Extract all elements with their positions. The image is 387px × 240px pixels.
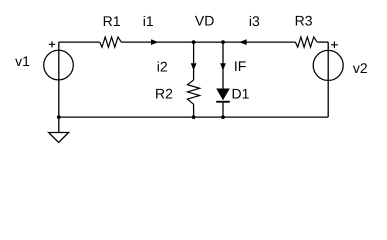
svg-text:v1: v1 xyxy=(15,53,30,69)
D1 branch wire lower xyxy=(222,103,224,117)
svg-text:IF: IF xyxy=(234,58,246,74)
svg-text:R3: R3 xyxy=(295,13,313,29)
v1 plus sign xyxy=(49,41,55,47)
svg-text:v2: v2 xyxy=(353,60,368,76)
wire top-left from v1 corner to R1 xyxy=(59,41,100,43)
wire v2 vertical (through source) xyxy=(327,42,329,117)
wire VD to D1 branch xyxy=(194,41,223,43)
v2 plus sign xyxy=(331,42,338,49)
current arrow i2 xyxy=(191,63,197,70)
wire R1 to node VD xyxy=(121,41,193,43)
diode D1 xyxy=(216,89,230,101)
wire bottom xyxy=(59,116,328,118)
wire R3 to v2 corner xyxy=(317,41,328,43)
R2 branch wire lower xyxy=(193,104,195,117)
voltage source v1 xyxy=(44,50,74,80)
svg-text:i1: i1 xyxy=(143,13,154,29)
D1 branch wire upper xyxy=(222,42,224,88)
ground symbol xyxy=(49,133,69,143)
resistor R1 xyxy=(100,37,122,47)
resistor R2 xyxy=(188,80,200,104)
junction dot top of D1 branch xyxy=(221,40,225,44)
ground stem xyxy=(58,117,60,132)
voltage source v2 xyxy=(313,50,343,80)
resistor R3 xyxy=(295,37,317,47)
svg-text:i3: i3 xyxy=(249,13,260,29)
junction dot ground node xyxy=(57,115,61,119)
node VD junction dot (top of R2 branch) xyxy=(192,40,196,44)
svg-text:i2: i2 xyxy=(157,58,168,74)
wire v1 vertical (through source) xyxy=(58,42,60,117)
svg-text:R1: R1 xyxy=(103,13,121,29)
current arrow i1 xyxy=(151,39,158,45)
svg-text:D1: D1 xyxy=(232,86,250,102)
svg-text:R2: R2 xyxy=(155,86,173,102)
R2 branch wire upper xyxy=(193,42,195,80)
current arrow i3 xyxy=(239,39,247,45)
current arrow IF xyxy=(220,63,226,70)
svg-text:VD: VD xyxy=(195,12,214,28)
wire D1 branch to R3 xyxy=(223,41,295,43)
junction dot bottom of D1 branch xyxy=(221,115,225,119)
junction dot bottom of R2 branch xyxy=(192,115,196,119)
